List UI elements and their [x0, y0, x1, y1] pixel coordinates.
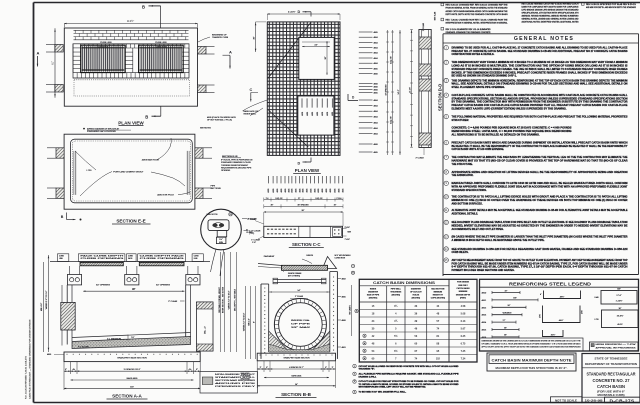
- svg-text:INSIDE: INSIDE: [370, 288, 377, 290]
- svg-text:MINIMUM: MINIMUM: [459, 291, 468, 293]
- svg-text:4605: 4605: [339, 189, 341, 193]
- svg-text:4605: 4605: [322, 189, 324, 193]
- svg-text:STANDARD RECTANGULAR: STANDARD RECTANGULAR: [587, 372, 636, 377]
- svg-text:4605: 4605: [374, 152, 378, 154]
- svg-text:1: 1: [352, 266, 353, 268]
- svg-text:D: D: [298, 10, 301, 14]
- svg-text:MIN: MIN: [219, 242, 223, 244]
- svg-text:3 EQ. SP.: 3 EQ. SP.: [390, 116, 392, 124]
- svg-text:4605: 4605: [292, 189, 294, 193]
- svg-text:4605: 4605: [302, 112, 304, 116]
- svg-text:SECTION B-B: SECTION B-B: [281, 392, 312, 397]
- svg-text:7.25: 7.25: [461, 350, 466, 353]
- svg-text:INSIDE DIA.: INSIDE DIA.: [291, 319, 311, 322]
- svg-text:1" CLEAR: 1" CLEAR: [248, 218, 257, 221]
- svg-text:4600: 4600: [374, 84, 378, 86]
- svg-text:2’-1 MAXIMUM: 2’-1 MAXIMUM: [107, 338, 121, 341]
- svg-text:4605: 4605: [285, 189, 287, 193]
- svg-text:7.34: 7.34: [461, 357, 466, 360]
- svg-text:APPROVAL W/ PROGRESS: APPROVAL W/ PROGRESS: [596, 346, 637, 349]
- svg-text:HARDWARE MAT SO THAT ITS (NO-C: HARDWARE MAT SO THAT ITS (NO-CB OF CLEAR…: [452, 159, 628, 162]
- svg-text:CURB IRON: CURB IRON: [335, 258, 346, 260]
- svg-text:CATCH BASIN: CATCH BASIN: [597, 384, 625, 389]
- svg-text:DIAMETER: DIAMETER: [411, 287, 422, 290]
- svg-text:TO OBTAIN A SMOOTH EDGE. SCOR: TO OBTAIN A SMOOTH EDGE. SCORED OR ETCHE…: [359, 383, 460, 386]
- svg-text:17¼": 17¼": [539, 314, 542, 318]
- svg-text:(FEET): (FEET): [460, 298, 466, 300]
- svg-text:VARIES 2’-0" TO 5’-0": VARIES 2’-0" TO 5’-0": [45, 290, 48, 309]
- svg-text:PAY LIMITS: PAY LIMITS: [349, 305, 352, 315]
- svg-text:4605: 4605: [303, 189, 305, 193]
- svg-text:REQUIREMENTS AROUND PIPE: REQUIREMENTS AROUND PIPE: [221, 167, 252, 170]
- svg-text:SEE TABLE FOR MIN. HEIGHT: SEE TABLE FOR MIN. HEIGHT: [218, 286, 221, 312]
- svg-text:SEE NOTES: SEE NOTES: [200, 128, 212, 130]
- svg-text:33" MAX: 33" MAX: [291, 326, 312, 329]
- svg-text:COPE (INCHES): COPE (INCHES): [431, 298, 446, 300]
- svg-text:4604: 4604: [374, 37, 378, 39]
- svg-text:54" OPENING: 54" OPENING: [156, 284, 170, 286]
- svg-text:OF BARS. STANDARD T.O.R.C. HOO: OF BARS. STANDARD T.O.R.C. HOOK AND BEND…: [482, 343, 582, 346]
- svg-text:SECTION MAX REQUIRED: SECTION MAX REQUIRED: [215, 379, 256, 382]
- svg-text:GRATE FRAME: GRATE FRAME: [288, 272, 302, 275]
- svg-text:4601: 4601: [342, 347, 346, 349]
- svg-text:ELEMENTS MEET AASHTO LRFD (CUR: ELEMENTS MEET AASHTO LRFD (CURRENT EDITI…: [452, 107, 567, 110]
- svg-text:36": 36": [619, 308, 622, 310]
- svg-text:PLAN VIEW: PLAN VIEW: [295, 168, 320, 173]
- svg-text:BE USED AS SHOWN ON STANDARD D: BE USED AS SHOWN ON STANDARD DRAWING D-R…: [452, 75, 517, 78]
- svg-text:54" OPENING: 54" OPENING: [96, 284, 110, 286]
- svg-text:LRFD BRIDGE DESIGN LRFD BRIDGE: LRFD BRIDGE DESIGN LRFD BRIDGE DESIGN TH…: [522, 9, 579, 12]
- svg-text:CUT-OUT HOLES FOR PRECAST STRU: CUT-OUT HOLES FOR PRECAST STRUCTURES TO …: [359, 380, 460, 383]
- svg-text:GENERAL NOTES, LEGEND AND GENE: GENERAL NOTES, LEGEND AND GENERAL NOTES …: [522, 18, 579, 21]
- svg-text:INSIDE WALL: INSIDE WALL: [244, 112, 257, 115]
- svg-text:4604: 4604: [374, 58, 378, 60]
- svg-text:THICKNESS: THICKNESS: [390, 291, 402, 293]
- svg-text:DIMENSIONS SHOWN ON THIS LEGEN: DIMENSIONS SHOWN ON THIS LEGEND ARE OUT-…: [482, 339, 582, 342]
- svg-text:REV. 5-03-05: REVISED CATCH R: REV. 5-03-05: REVISED CATCH REV 5-03-05:…: [522, 3, 579, 6]
- svg-text:4605: 4605: [318, 189, 320, 193]
- svg-text:A: A: [37, 51, 40, 56]
- svg-text:MOUNTABLE CURB): MOUNTABLE CURB): [598, 394, 625, 397]
- svg-text:54": 54": [295, 384, 298, 386]
- svg-text:THE FOLLOWING MATERIAL PROPERT: THE FOLLOWING MATERIAL PROPERTIES ARE RE…: [452, 115, 628, 118]
- svg-text:54": 54": [298, 290, 301, 292]
- svg-text:REV. 8-20-13: SPECIFIED TOP S: REV. 8-20-13: SPECIFIED TOP SLAB REV 8-2…: [586, 3, 636, 6]
- svg-text:THE STRUCTURE.: THE STRUCTURE.: [452, 163, 474, 166]
- svg-text:4605: 4605: [296, 189, 298, 193]
- svg-text:SECTIONS: SECTIONS: [211, 188, 222, 190]
- svg-text:36": 36": [253, 36, 255, 39]
- svg-text:32": 32": [505, 290, 508, 292]
- svg-text:FOR RISER: FOR RISER: [241, 376, 251, 378]
- svg-text:SECTION A-A: SECTION A-A: [112, 394, 142, 399]
- svg-text:4605: 4605: [327, 112, 329, 116]
- svg-text:STANDARD SPECIFICATIONS.: STANDARD SPECIFICATIONS.: [452, 189, 487, 192]
- svg-text:DIA. + 2’: DIA. + 2’: [204, 326, 207, 334]
- svg-text:CURB INLETS.: CURB INLETS.: [452, 251, 469, 254]
- svg-text:CLEAR: CLEAR: [246, 231, 253, 234]
- svg-text:VARIES 2’-0" TO 16’-0": VARIES 2’-0" TO 16’-0": [243, 313, 246, 332]
- svg-text:11 SPACES OF 6": 11 SPACES OF 6": [124, 368, 141, 371]
- svg-text:(BY OTHERS): (BY OTHERS): [288, 275, 301, 277]
- svg-text:113": 113": [130, 386, 134, 388]
- svg-text:NOT TO SCALE: NOT TO SCALE: [555, 398, 577, 402]
- svg-text:MAXIMUM DEPTH FOR THIS STRUCTU: MAXIMUM DEPTH FOR THIS STRUCTURE IS 20’-…: [496, 367, 568, 370]
- svg-text:RISER SECTION – SEE NOTES: RISER SECTION – SEE NOTES: [223, 286, 225, 313]
- svg-text:MIN SLAB: MIN SLAB: [434, 11, 437, 20]
- svg-text:L720: L720: [595, 319, 599, 321]
- svg-text:CATCH BASIN UNITS AT HIS OWN E: CATCH BASIN UNITS AT HIS OWN EXPENSE.: [452, 148, 505, 151]
- svg-text:4605: 4605: [317, 112, 319, 116]
- svg-text:HIGH REVISION — T-PW: HIGH REVISION — T-PW: [596, 344, 636, 346]
- svg-text:IF HOLES, PIPE IS PERFORM ON: IF HOLES, PIPE IS PERFORM ON: [221, 159, 253, 161]
- svg-text:1" CLEAR: 1" CLEAR: [251, 239, 260, 242]
- svg-text:4605: 4605: [342, 296, 346, 298]
- svg-text:PIPE WALL: PIPE WALL: [391, 287, 402, 290]
- svg-text:10" SPACING: 10" SPACING: [384, 84, 387, 96]
- svg-text:P-1 SLOPE: P-1 SLOPE: [78, 346, 89, 348]
- svg-text:OPENINGS ONLY: OPENINGS ONLY: [215, 386, 257, 388]
- svg-text:REV. 7-20-01: CHANGED ROW REV: REV. 7-20-01: CHANGED ROW REV 7-20-01: C…: [446, 19, 509, 22]
- svg-text:OPENING: OPENING: [221, 170, 231, 172]
- svg-text:24": 24": [314, 44, 317, 46]
- svg-text:4605: 4605: [312, 112, 314, 116]
- svg-text:D: D: [298, 162, 301, 166]
- svg-text:PAYMENT INCLUDES RISER SECTION: PAYMENT INCLUDES RISER SECTIONS AND GRAT…: [452, 269, 515, 272]
- svg-text:6½: 6½: [394, 349, 397, 353]
- svg-text:4605: 4605: [314, 189, 316, 193]
- svg-text:CUT-OUT HOLES ALLOWED ON REINF: CUT-OUT HOLES ALLOWED ON REINFORCED CONC…: [359, 365, 459, 368]
- svg-text:INTERPRETATION IN GENERAL NOTE: INTERPRETATION IN GENERAL NOTES. INTERPR…: [446, 22, 509, 25]
- svg-text:R.O. 10-25-96 REVISED 7-20: R.O. 10-25-96 REVISED 7-20-01 D-CB-27S: [26, 356, 28, 399]
- svg-text:B: B: [61, 215, 64, 219]
- svg-text:FROM ON GENERAL NOTES. FROM ON: FROM ON GENERAL NOTES. FROM ON GENERAL N…: [446, 7, 508, 10]
- svg-text:THICKNESS "B".: THICKNESS "B".: [359, 369, 376, 371]
- svg-text:1’-6": 1’-6": [252, 242, 256, 244]
- svg-text:2" CLEAR: 2" CLEAR: [295, 295, 304, 298]
- svg-text:4605: 4605: [374, 32, 378, 34]
- svg-text:STEEL PLACEMENT ABOVE PIPE OPE: STEEL PLACEMENT ABOVE PIPE OPENINGS.: [452, 86, 506, 89]
- svg-text:CONCRETE NO. 27: CONCRETE NO. 27: [593, 378, 631, 383]
- svg-text:4605: 4605: [289, 189, 291, 193]
- svg-text:PLAN VIEW: PLAN VIEW: [118, 120, 144, 125]
- svg-text:4604: 4604: [374, 106, 378, 108]
- svg-text:VARIABLE: VARIABLE: [502, 312, 512, 315]
- svg-text:4604: 4604: [374, 42, 378, 44]
- svg-text:SEE NOTE: SEE NOTE: [207, 214, 219, 216]
- svg-text:SPECIFICATIONS, 4TH EDITION WI: SPECIFICATIONS, 4TH EDITION WITH SPECIFI…: [522, 12, 579, 15]
- svg-text:17’-0": 17’-0": [616, 295, 621, 297]
- svg-text:4.58: 4.58: [461, 305, 466, 308]
- svg-text:4605: 4605: [374, 68, 378, 70]
- svg-text:MIN 4’-0": MIN 4’-0": [249, 318, 251, 326]
- svg-text:4604: 4604: [374, 117, 378, 119]
- svg-text:2" CLEAR: 2" CLEAR: [168, 300, 178, 303]
- svg-text:B: B: [145, 114, 148, 119]
- svg-text:APPROPRIATE SIZING AND CREATIO: APPROPRIATE SIZING AND CREATION OF LIFTI…: [452, 171, 628, 174]
- svg-text:CURB OPENING: CURB OPENING: [80, 258, 125, 260]
- svg-text:DRAWING D-PB-2.: DRAWING D-PB-2.: [359, 375, 377, 378]
- svg-text:113½": 113½": [127, 19, 134, 23]
- svg-text:BASIN FOR COMPLIANCE WITH AASH: BASIN FOR COMPLIANCE WITH AASHTO BASIN F…: [522, 6, 580, 9]
- svg-text:4604: 4604: [374, 63, 378, 65]
- svg-text:5½: 5½: [394, 334, 397, 338]
- svg-text:CURB IRON: CURB IRON: [98, 46, 109, 48]
- svg-text:4600: 4600: [342, 320, 346, 322]
- svg-text:(INCHES): (INCHES): [392, 295, 401, 297]
- svg-text:CADD FILE: STDRECCB27 — STANDA: CADD FILE: STDRECCB27 — STANDARD DRAWING…: [29, 319, 32, 399]
- svg-text:36": 36": [271, 204, 274, 206]
- svg-text:36": 36": [504, 335, 507, 337]
- svg-text:REV. 8-00-04: CHANGED REF. RE: REV. 8-00-04: CHANGED REF. REV 8-00-04: …: [446, 4, 509, 7]
- svg-text:A MINIMUM 23 INCH DEPTH SHALL: A MINIMUM 23 INCH DEPTH SHALL BE MAINTAI…: [452, 239, 545, 242]
- svg-text:CATCH BASIN MAXIMUM DEPTH NOTE: CATCH BASIN MAXIMUM DEPTH NOTE: [492, 358, 573, 362]
- svg-text:5.08: 5.08: [461, 312, 466, 315]
- svg-text:ADDED CATCH BASIN MAXIMUM ADDE: ADDED CATCH BASIN MAXIMUM ADDED CATCH BA…: [446, 10, 509, 13]
- svg-text:36": 36": [325, 56, 327, 59]
- svg-text:ADDITIONAL DETAILS.: ADDITIONAL DETAILS.: [452, 212, 479, 215]
- svg-text:4605: 4605: [374, 93, 378, 95]
- svg-text:4 SPACES OF 7": 4 SPACES OF 7": [289, 366, 304, 369]
- svg-text:CONSTRUCTION NOTES & DETAILS.: CONSTRUCTION NOTES & DETAILS.: [452, 53, 495, 56]
- svg-text:1’-6: 1’-6: [266, 198, 269, 200]
- svg-text:GRAN-FRET BASE SECTION: GRAN-FRET BASE SECTION: [117, 356, 147, 359]
- svg-text:STATE OF TENNESSEE: STATE OF TENNESSEE: [595, 356, 628, 360]
- svg-text:SECTION D-D: SECTION D-D: [438, 84, 443, 111]
- svg-text:OF BOTTOM MAT, 2 PLCS): OF BOTTOM MAT, 2 PLCS): [207, 119, 232, 122]
- svg-text:REV. 1-31-14: ELIMINATED REV: REV. 1-31-14: ELIMINATED REV 1-31-14: EL…: [446, 28, 491, 31]
- svg-text:L720: L720: [87, 170, 93, 172]
- svg-text:AMENDED. REVISED NUMBERING, AM: AMENDED. REVISED NUMBERING, AMENDED REVI…: [522, 15, 579, 18]
- svg-text:TURNING REINFORCEMENT: TURNING REINFORCEMENT: [221, 165, 249, 167]
- svg-text:4605: 4605: [268, 189, 270, 193]
- svg-text:10-26-98: 10-26-98: [585, 399, 604, 403]
- svg-text:VARIES 2’-0" TO 16’-0": VARIES 2’-0" TO 16’-0": [228, 290, 231, 309]
- svg-text:AND BOTTOM SURFACES.: AND BOTTOM SURFACES.: [452, 202, 483, 205]
- svg-text:DEPTH NOTE. DEPTH NOTE THE STA: DEPTH NOTE. DEPTH NOTE THE STANDARD CONC…: [446, 13, 508, 16]
- svg-text:ALL FLEXIBLE PIPE MATERIALS RE: ALL FLEXIBLE PIPE MATERIALS REQUIRE GASK…: [359, 373, 460, 376]
- svg-text:BASE FACE ON: BASE FACE ON: [244, 110, 259, 113]
- svg-text:102": 102": [617, 289, 621, 291]
- svg-text:STANDARD DRAWING D-CB-NV: STANDARD DRAWING D-CB-NV: [221, 161, 252, 164]
- svg-text:98": 98": [132, 289, 136, 291]
- svg-text:4604: 4604: [374, 100, 378, 102]
- svg-text:SEE STANDARD DRAWING D-CB8-12N: SEE STANDARD DRAWING D-CB8-12N FOR DETAI…: [452, 248, 628, 251]
- svg-text:2" CLEAR: 2" CLEAR: [416, 157, 425, 160]
- svg-text:4605: 4605: [277, 189, 279, 193]
- svg-text:5 EQ. SP.: 5 EQ. SP.: [315, 198, 323, 200]
- svg-text:17¼": 17¼": [581, 310, 584, 314]
- svg-text:56": 56": [508, 305, 511, 307]
- svg-text:MIN. 4’-0": MIN. 4’-0": [41, 303, 43, 312]
- svg-text:4605: 4605: [281, 189, 283, 193]
- svg-text:4600: 4600: [374, 144, 378, 146]
- svg-text:BARS 4601: BARS 4601: [292, 375, 302, 378]
- svg-text:APPLY, EXCEPT AS NOTED. APPLY: APPLY, EXCEPT AS NOTED. APPLY EXCEPT AS …: [482, 346, 581, 349]
- svg-text:3 EQ. SP.: 3 EQ. SP.: [390, 56, 392, 64]
- svg-text:4605: 4605: [343, 189, 345, 193]
- svg-text:102: 102: [436, 357, 441, 360]
- svg-text:27": 27": [503, 320, 506, 322]
- svg-text:2" CLEAR: 2" CLEAR: [422, 22, 425, 31]
- svg-text:4604: 4604: [374, 48, 378, 50]
- svg-text:MINIMUM: MINIMUM: [434, 291, 443, 293]
- svg-text:4605: 4605: [335, 189, 337, 193]
- svg-text:4604: 4604: [374, 128, 378, 130]
- svg-text:GRATE: GRATE: [306, 254, 313, 257]
- svg-text:MIN. DEPTH – SEE TABLE: MIN. DEPTH – SEE TABLE: [234, 288, 237, 311]
- svg-text:98": 98": [302, 210, 305, 212]
- svg-text:36" SPACING: 36" SPACING: [297, 203, 309, 206]
- svg-text:18": 18": [334, 204, 337, 206]
- svg-text:MAX BOTTOM: MAX BOTTOM: [431, 287, 444, 290]
- svg-text:4604: 4604: [374, 53, 378, 55]
- svg-text:PAVEMENT: PAVEMENT: [264, 255, 275, 258]
- svg-text:4605: 4605: [332, 112, 334, 116]
- svg-text:61": 61": [52, 61, 55, 65]
- svg-text:6.75: 6.75: [461, 342, 466, 345]
- svg-text:4604: 4604: [374, 111, 378, 113]
- svg-text:SECTION E-E: SECTION E-E: [116, 219, 145, 224]
- svg-text:D-CB-27S: D-CB-27S: [610, 398, 635, 404]
- svg-text:4605 (PLACE ON INSIDE FACE: 4605 (PLACE ON INSIDE FACE: [207, 116, 236, 119]
- svg-text:B: B: [142, 5, 145, 10]
- svg-text:SECTIONS: SECTIONS: [241, 378, 251, 380]
- svg-text:CATCH BASIN DIMENSIONS: CATCH BASIN DIMENSIONS: [373, 280, 435, 285]
- svg-text:USE ONLY: USE ONLY: [458, 285, 468, 287]
- svg-text:(INCHES): (INCHES): [369, 298, 378, 300]
- svg-text:L940: L940: [595, 297, 599, 299]
- svg-text:40E3 STR POLE: 40E3 STR POLE: [157, 194, 174, 196]
- svg-text:A: A: [229, 50, 232, 55]
- svg-text:HEIGHT HT: HEIGHT HT: [433, 295, 444, 297]
- svg-text:4605: 4605: [47, 354, 51, 356]
- svg-text:FOR DESIGN: FOR DESIGN: [457, 282, 469, 284]
- svg-text:(INCHES): (INCHES): [412, 298, 421, 300]
- svg-text:6.13: 6.13: [461, 320, 466, 323]
- svg-text:4605: 4605: [310, 189, 312, 193]
- svg-text:ADDITIONAL NOTES. IDENTIFIED G: ADDITIONAL NOTES. IDENTIFIED GRATES. ADD…: [522, 21, 580, 24]
- svg-text:156": 156": [513, 298, 517, 300]
- svg-text:4602: 4602: [342, 278, 346, 280]
- svg-text:CATCH BASIN: CATCH BASIN: [457, 287, 471, 290]
- svg-text:OF CUT-OUT: OF CUT-OUT: [410, 291, 422, 293]
- svg-text:MAX OF PIPE: MAX OF PIPE: [367, 294, 380, 297]
- svg-text:6.25: 6.25: [461, 335, 466, 338]
- svg-text:5 EQ. SP.: 5 EQ. SP.: [275, 198, 283, 200]
- svg-text:GRAN-FRET BASE SECTION: GRAN-FRET BASE SECTION: [283, 356, 310, 359]
- svg-text:CURB IRON: CURB IRON: [156, 46, 167, 48]
- svg-text:45.3C: 45.3C: [617, 324, 623, 326]
- svg-text:4605: 4605: [307, 112, 309, 116]
- svg-text:GENERAL NOTES: GENERAL NOTES: [514, 36, 574, 42]
- svg-text:4606: 4606: [374, 74, 378, 76]
- svg-text:WITH REINFORCING STEEL LEFT UN: WITH REINFORCING STEEL LEFT UNCUT WILL N…: [359, 387, 427, 389]
- svg-text:5.67: 5.67: [461, 327, 466, 330]
- svg-text:AROUND PIPE: AROUND PIPE: [215, 382, 257, 385]
- svg-text:4604: 4604: [374, 134, 378, 136]
- svg-text:REINFORCING STEEL LEGEND: REINFORCING STEEL LEGEND: [509, 281, 591, 286]
- svg-text:TRANSITE CURB: TRANSITE CURB: [212, 36, 229, 39]
- svg-text:4605: 4605: [330, 189, 332, 193]
- svg-text:4600: 4600: [374, 90, 378, 92]
- svg-text:ACCOMMODATE INLET AND OUTLET P: ACCOMMODATE INLET AND OUTLET PIPES.: [452, 228, 504, 231]
- svg-text:OF PIPE: OF PIPE: [291, 323, 312, 325]
- svg-text:44¾": 44¾": [559, 319, 564, 322]
- svg-text:HOLES: HOLES: [413, 295, 420, 297]
- svg-text:STRUCTURES:: STRUCTURES:: [452, 119, 470, 122]
- svg-text:36": 36": [504, 327, 507, 329]
- svg-text:7’-6¾": 7’-6¾": [345, 238, 351, 241]
- svg-text:4600: 4600: [374, 87, 378, 89]
- svg-text:C: C: [250, 88, 253, 92]
- svg-text:4605: 4605: [307, 189, 309, 193]
- svg-text:CURB OPENING: CURB OPENING: [140, 258, 186, 260]
- svg-text:ALL REINFORCING IS TO BE INSTA: ALL REINFORCING IS TO BE INSTALLED AS DE…: [452, 133, 540, 136]
- svg-text:11": 11": [298, 198, 301, 200]
- svg-text:PORTLAND CEMENT GROUT: PORTLAND CEMENT GROUT: [113, 171, 144, 174]
- svg-text:AND MIN ROW DEPTH. AND MIN ROW: AND MIN ROW DEPTH. AND MIN ROW DEPTH THE…: [586, 6, 636, 9]
- svg-text:4604: 4604: [374, 122, 378, 124]
- svg-text:40E3 BAR HOOK: 40E3 BAR HOOK: [142, 159, 160, 162]
- svg-text:16’-6¾": 16’-6¾": [617, 314, 624, 317]
- svg-text:TO BE USED IN 18" MIN. DIAMETE: TO BE USED IN 18" MIN. DIAMETER FULL WAL…: [359, 391, 407, 394]
- svg-text:NON-SHRINK GROUT: NON-SHRINK GROUT: [215, 374, 257, 376]
- svg-text:4605: 4605: [300, 189, 302, 193]
- svg-text:4605: 4605: [326, 189, 328, 193]
- svg-text:DIAMETER: DIAMETER: [368, 290, 379, 293]
- svg-text:4605: 4605: [322, 112, 324, 116]
- svg-text:DESIGN DEPTH: DESIGN DEPTH: [456, 294, 471, 296]
- svg-text:DEPARTMENT OF TRANSPORTATION: DEPARTMENT OF TRANSPORTATION: [585, 362, 637, 366]
- svg-text:SEE NOTE: SEE NOTE: [241, 373, 251, 375]
- svg-text:SECTION C-C: SECTION C-C: [292, 242, 321, 247]
- svg-text:BARS 4605: BARS 4605: [127, 377, 139, 380]
- svg-text:THE FABRICATOR.: THE FABRICATOR.: [452, 174, 474, 177]
- svg-text:4605: 4605: [273, 189, 275, 193]
- svg-text:14’-1": 14’-1": [398, 89, 400, 94]
